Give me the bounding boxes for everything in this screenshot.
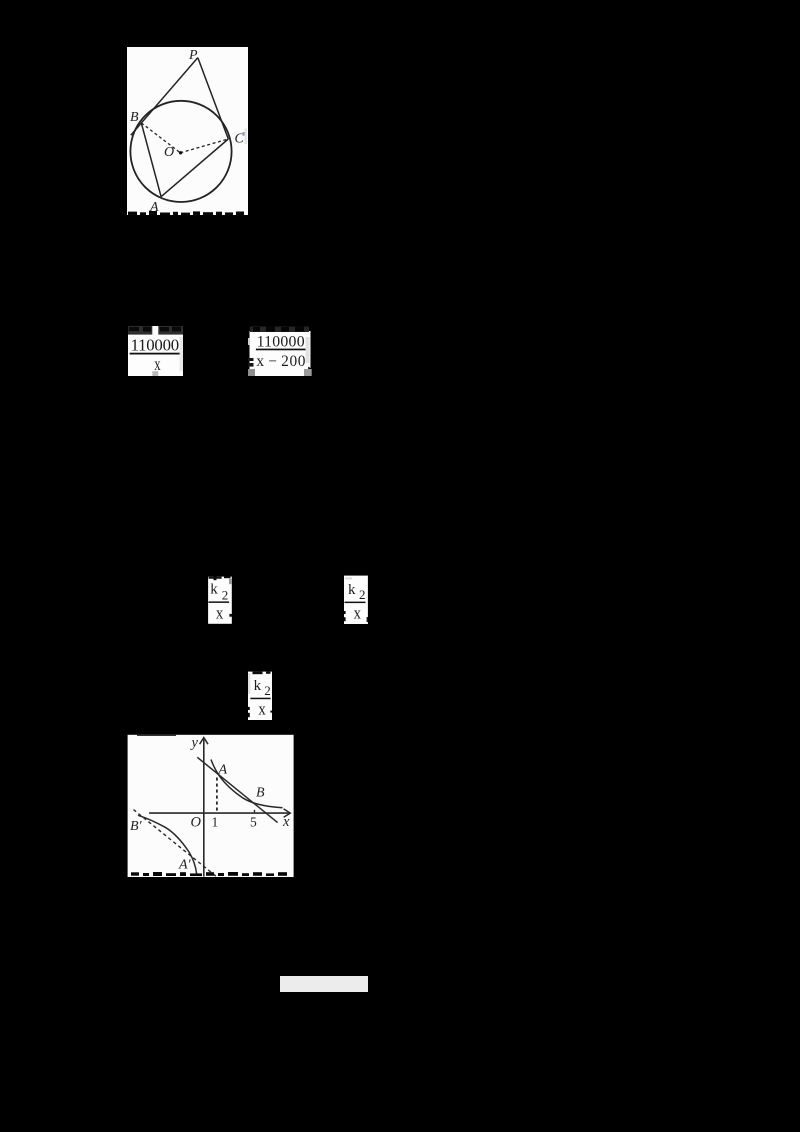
fraction bar <box>250 698 270 700</box>
formula image: k2/x (third) <box>248 671 272 720</box>
formula image: k2/x (second) <box>344 575 368 624</box>
chord B-A <box>141 123 161 197</box>
x-axis arrowhead <box>284 809 291 817</box>
formula background <box>250 331 311 376</box>
svg-text:x: x <box>216 604 224 623</box>
grey answer blank rectangle <box>280 976 368 992</box>
top artifact marks <box>209 577 222 579</box>
top artifact marks <box>253 672 263 675</box>
formula image: 110000/x <box>128 326 184 376</box>
bottom scan artifact blobs <box>131 872 287 876</box>
figure: hyperbola graph with line AB and A'B' <box>127 734 294 877</box>
figure background <box>128 735 294 877</box>
svg-text:k: k <box>254 678 262 694</box>
comma artifact bottom right <box>308 367 311 372</box>
svg-text:B: B <box>130 110 139 125</box>
svg-text:1: 1 <box>212 815 219 830</box>
left-edge notch artifacts <box>344 611 346 614</box>
svg-text:O: O <box>191 815 202 831</box>
hyperbola branch Q1 <box>211 760 283 808</box>
faint top strip <box>345 578 352 580</box>
svg-text:k: k <box>348 582 356 598</box>
chord A-C <box>161 139 228 197</box>
blue artifact tick next to C <box>243 132 246 136</box>
top scan artifact band <box>128 326 183 335</box>
bottom/right artifact patches <box>152 371 158 376</box>
svg-text:110000: 110000 <box>257 333 305 350</box>
dashed drop line from A to x-axis <box>216 778 218 813</box>
formula background <box>344 576 368 625</box>
svg-text:x: x <box>258 699 266 718</box>
top scan artifact band <box>250 327 309 333</box>
figure background <box>127 47 248 215</box>
svg-text:B′: B′ <box>130 819 143 834</box>
top-left scan smudge <box>137 735 176 736</box>
svg-text:y: y <box>190 735 199 751</box>
circle O <box>130 101 231 202</box>
formula background <box>128 334 183 376</box>
grey artifact patches <box>248 338 250 345</box>
hyperbola branch Q3 <box>138 815 197 873</box>
formula background <box>248 672 272 720</box>
y-axis arrowhead <box>200 738 208 745</box>
tick at x=5 <box>254 810 256 813</box>
svg-text:A: A <box>218 763 228 778</box>
fraction bar <box>345 602 366 604</box>
svg-text:A′: A′ <box>178 858 192 873</box>
right-edge dot artifact <box>229 614 232 617</box>
svg-text:x: x <box>154 354 160 374</box>
y-axis <box>203 739 205 876</box>
figure: circle with tangents P, points A B C O <box>127 47 248 215</box>
right-edge notch artifact <box>367 617 368 622</box>
fraction bar <box>209 601 230 603</box>
svg-text:2: 2 <box>264 683 271 698</box>
svg-text:k: k <box>210 582 218 598</box>
formula background <box>208 577 232 624</box>
svg-text:2: 2 <box>222 587 229 602</box>
line through A and B <box>197 757 277 822</box>
formula image: k2/x (first) <box>208 576 232 624</box>
dashed radius O-C <box>180 139 228 153</box>
right-edge notch artifact <box>270 711 272 713</box>
svg-text:x: x <box>354 603 362 622</box>
svg-text:5: 5 <box>250 815 257 830</box>
svg-text:x: x <box>282 814 290 830</box>
fraction bar <box>256 349 307 351</box>
svg-text:B: B <box>256 786 265 801</box>
x-axis <box>149 812 289 814</box>
svg-text:x − 200: x − 200 <box>256 353 305 370</box>
svg-text:110000: 110000 <box>131 336 180 355</box>
tangent line P-B extended <box>131 58 198 136</box>
left-edge notch artifacts <box>248 707 250 710</box>
dashed line through B' and A' <box>134 810 218 877</box>
formula image: 110000/(x-200) <box>248 324 312 376</box>
line P-C <box>198 58 229 139</box>
center dot O <box>179 151 182 154</box>
fraction bar <box>130 353 181 355</box>
bottom scan artifact blobs <box>128 211 244 215</box>
svg-text:P: P <box>188 48 198 63</box>
svg-text:2: 2 <box>359 587 366 602</box>
svg-text:O: O <box>164 145 174 160</box>
dashed radius B-O <box>141 123 180 153</box>
